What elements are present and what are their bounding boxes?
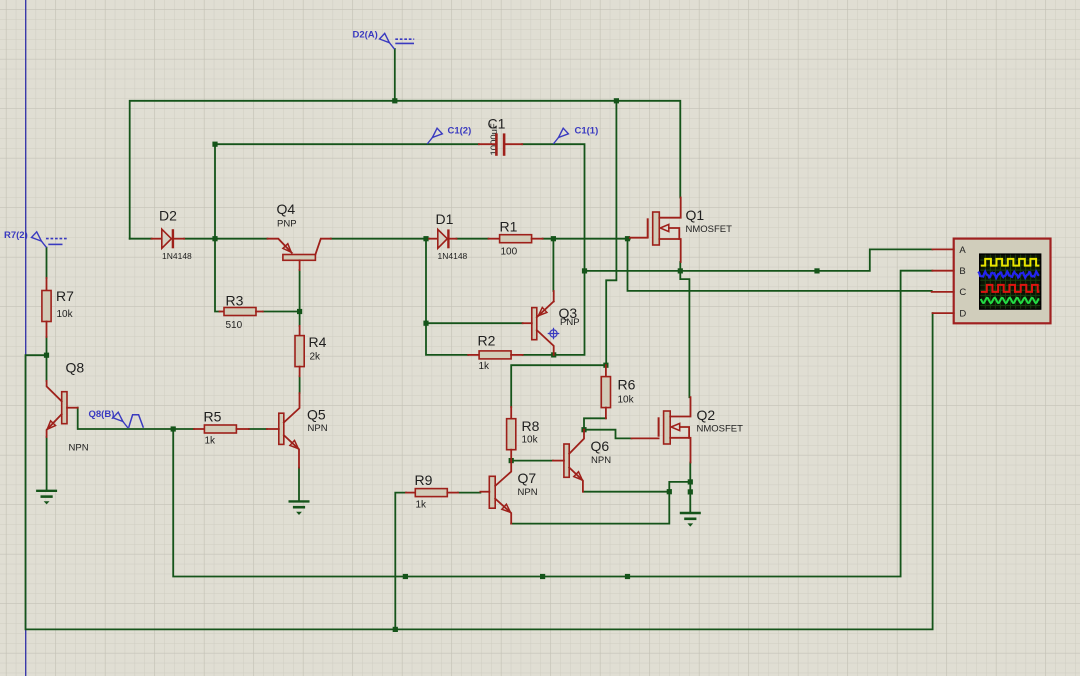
- scope pin C: [932, 291, 954, 293]
- svg-text:A: A: [959, 245, 966, 256]
- svg-text:NPN: NPN: [518, 487, 538, 498]
- transistor Q4 PNP: [283, 255, 316, 261]
- wire: Q4 collector to D1 anode: [331, 238, 429, 240]
- svg-text:1k: 1k: [416, 500, 428, 511]
- svg-text:10k: 10k: [618, 395, 635, 406]
- diode D2: [152, 238, 162, 240]
- junction dots: [44, 353, 49, 358]
- svg-text:R2: R2: [478, 333, 496, 349]
- wire: R5 left: [173, 428, 194, 430]
- svg-text:Q1: Q1: [686, 207, 705, 223]
- resistor R8 10k: [510, 407, 512, 419]
- wire: R8 top to R6 top: [511, 365, 606, 407]
- diode D1: [429, 238, 438, 240]
- resistor R4 2k: [299, 326, 301, 336]
- svg-text:C1(2): C1(2): [448, 126, 472, 137]
- svg-text:Q2: Q2: [697, 407, 716, 423]
- svg-text:R9: R9: [415, 472, 433, 488]
- svg-text:C1(1): C1(1): [575, 126, 599, 137]
- wire: Q4 base down to R3/R4 node: [299, 270, 301, 326]
- svg-text:100: 100: [501, 247, 518, 258]
- resistor R5 1k: [194, 428, 204, 430]
- svg-text:D: D: [959, 308, 966, 319]
- wire: R6 bottom jog to Q6 collector node and Q2 gate: [584, 418, 632, 438]
- svg-text:1k: 1k: [479, 361, 491, 372]
- svg-text:R3: R3: [226, 293, 244, 309]
- wire: D1 node down + R2 left: [426, 239, 468, 355]
- wire: R1 right to Q1 gate: [543, 238, 630, 240]
- svg-text:R5: R5: [204, 409, 222, 425]
- wire: supply drop to R6/R8 node (jog at 280): [606, 101, 616, 365]
- wire: Q8 base run to R5 node: [78, 408, 174, 429]
- svg-text:NMOSFET: NMOSFET: [697, 424, 744, 435]
- resistor R1 100: [489, 238, 500, 240]
- wire: Q3 base wire: [426, 322, 523, 324]
- wire: R3 right to node: [263, 311, 300, 313]
- waveform channel C (red square): [981, 285, 1040, 292]
- wire: R9 right to Q7 base: [458, 492, 480, 494]
- wire: Q2 source down to ground: [689, 463, 691, 514]
- svg-text:1N4148: 1N4148: [438, 251, 468, 261]
- wire: R9 left down to bottom bus: [395, 493, 406, 630]
- svg-text:Q8(B): Q8(B): [89, 409, 115, 420]
- waveform channel B (blue noisy sine): [978, 272, 1039, 279]
- svg-text:NPN: NPN: [591, 455, 611, 466]
- MOSFET Q2 NMOSFET: [658, 417, 660, 436]
- transistor Q5 NPN: [279, 413, 284, 444]
- svg-text:Q5: Q5: [307, 407, 326, 423]
- svg-text:510: 510: [226, 320, 243, 331]
- wire: C1 right bus down to R2/Q3 node: [522, 144, 584, 355]
- svg-text:PNP: PNP: [560, 317, 580, 328]
- wire: D2 anode feed: [130, 238, 152, 240]
- wire: Q5 emitter to ground: [298, 468, 300, 501]
- svg-text:10k: 10k: [522, 435, 539, 446]
- svg-text:R7: R7: [56, 288, 74, 304]
- wire: C1 left bus: [215, 143, 479, 145]
- svg-text:R8: R8: [522, 418, 540, 434]
- svg-text:Q6: Q6: [591, 438, 610, 454]
- sheet border (blue): [25, 0, 27, 676]
- svg-text:R1: R1: [500, 219, 518, 235]
- wire: D2 cathode to node: [184, 238, 215, 240]
- resistor R9 1k: [406, 492, 415, 494]
- scope pin D: [933, 312, 954, 314]
- oscilloscope: [954, 239, 1051, 324]
- ground (Q8 emitter): [36, 490, 57, 492]
- wire: vertical D2 cathode node down to R3: [215, 144, 220, 311]
- wire: D1 cathode to R1: [457, 238, 489, 240]
- wire: Q8 emitter to ground: [46, 437, 48, 490]
- wire: B net: node down, bottom run, up to scope B: [173, 271, 932, 577]
- wire: D2(A) probe stem: [394, 49, 396, 101]
- wire: Q1 source node jog down to Q2 drain: [680, 271, 689, 397]
- svg-text:1k: 1k: [205, 436, 217, 447]
- wire: Q7 emitter run and riser: [511, 482, 690, 524]
- scope pin A: [932, 248, 953, 250]
- wire: Q5 base to R5: [249, 428, 267, 430]
- wire: Q6 emitter run: [584, 491, 669, 493]
- wire: A net: from C1(1) vertical to scope A with step: [585, 249, 933, 271]
- resistor R3 510: [220, 311, 225, 313]
- wire: C net: Q1 gate node down and right to scope C: [628, 239, 932, 291]
- svg-text:NPN: NPN: [308, 423, 328, 434]
- svg-text:C1: C1: [488, 116, 506, 132]
- svg-text:R7(2): R7(2): [4, 230, 28, 241]
- wire: Q1 source stem: [679, 262, 681, 271]
- svg-text:R6: R6: [618, 377, 636, 393]
- blue crosshair marker: [548, 328, 560, 340]
- svg-text:10k: 10k: [57, 309, 74, 320]
- svg-text:2k: 2k: [310, 352, 322, 363]
- svg-text:NPN: NPN: [69, 443, 89, 454]
- MOSFET Q1 NMOSFET: [647, 218, 649, 237]
- wire: Q3 emitter stem: [552, 239, 554, 291]
- transistor Q8 NPN: [62, 392, 67, 424]
- transistor Q7 NPN: [489, 476, 495, 508]
- svg-text:D2(A): D2(A): [353, 29, 378, 40]
- wire: node to Q4 emitter: [215, 238, 268, 240]
- resistor R6 10k: [605, 365, 607, 376]
- svg-text:Q8: Q8: [66, 360, 85, 376]
- transistor Q6 NPN: [564, 444, 569, 477]
- svg-text:B: B: [959, 266, 965, 277]
- wire: R7 bottom to Q8 collector: [46, 337, 48, 381]
- resistor R7 10k: [46, 278, 48, 291]
- waveform channel D (green sine): [981, 298, 1039, 303]
- svg-text:Q4: Q4: [277, 201, 296, 217]
- svg-text:D2: D2: [159, 208, 177, 224]
- transistor Q3 PNP: [532, 308, 537, 340]
- resistor R2 1k: [468, 354, 479, 356]
- svg-text:R4: R4: [309, 334, 327, 350]
- scope pin B: [932, 270, 953, 272]
- svg-text:C: C: [959, 287, 966, 298]
- wire: R7 top probe stem: [46, 248, 48, 278]
- svg-text:PNP: PNP: [277, 218, 297, 229]
- wire: D net: scope D down, bottom bus, left edge up to R7/Q8 node: [26, 313, 933, 629]
- wire: top supply bus with verticals to D2 and Q1 drain: [130, 101, 681, 239]
- ground (Q2 source): [680, 512, 701, 514]
- waveform channel A (yellow square): [981, 259, 1040, 266]
- scope screen: [980, 254, 1041, 309]
- ground (Q5 emitter): [289, 500, 310, 502]
- wire: R8 bottom node to Q6 base: [511, 460, 553, 462]
- svg-text:Q7: Q7: [518, 470, 537, 486]
- svg-text:D1: D1: [436, 211, 454, 227]
- wire: R4 bottom to Q5 collector: [299, 376, 301, 393]
- svg-text:NMOSFET: NMOSFET: [686, 224, 733, 235]
- svg-text:1N4148: 1N4148: [162, 251, 192, 261]
